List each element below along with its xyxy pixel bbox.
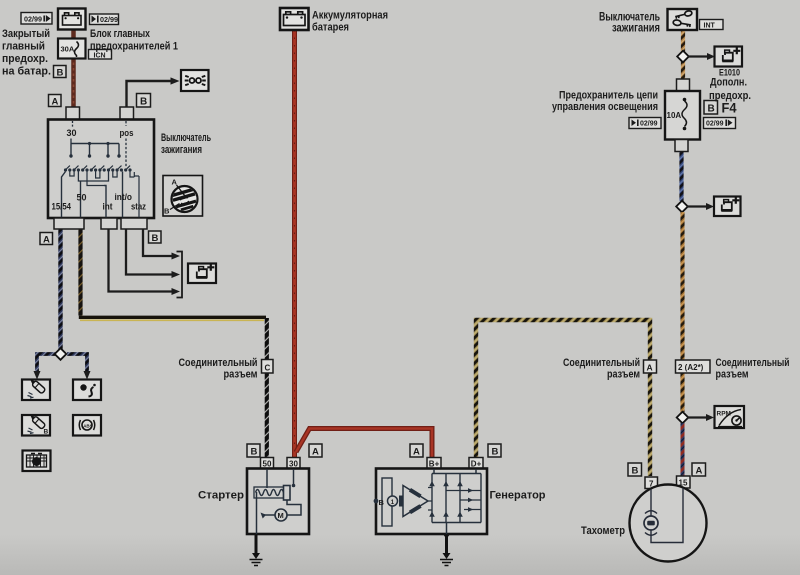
svg-text:15/54: 15/54 [52,202,72,212]
connector stub below ignition (int-o, staz) [121,218,147,229]
svg-text:10A: 10A [667,111,682,120]
caption F4 [722,101,737,116]
label B tach 7 [628,463,642,477]
caption ignition switch (left) [161,132,211,156]
svg-text:30: 30 [289,460,298,469]
connector C box [262,360,274,374]
bracket for battery-plus arrows [177,252,183,298]
svg-text:A: A [413,447,420,458]
svg-text:ICN: ICN [94,53,106,60]
fuel injector icon box 1 [22,377,50,400]
svg-text:30A: 30A [61,45,75,54]
svg-text:pos: pos [120,128,134,138]
battery-plus icon box (mid right) [714,197,741,217]
svg-text:Соединительный: Соединительный [716,357,790,369]
label B generator D+ [488,444,501,458]
starter box [247,469,309,535]
svg-text:A: A [43,235,50,246]
svg-text:B: B [632,466,639,477]
tachometer circle [630,485,707,562]
svg-text:F4: F4 [722,101,737,116]
connector stub above fuse F4 [677,79,690,91]
svg-text:Стартер: Стартер [198,490,244,502]
svg-text:Соединительный: Соединительный [179,357,258,369]
label B (headlight branch) [137,94,151,108]
wire fuse 30A to ignition switch connector (dark red) [71,57,76,108]
starter internals [254,469,301,534]
svg-text:предохр.: предохр. [2,53,48,65]
label B starter 50 [247,444,260,458]
svg-text:INT: INT [704,23,716,30]
svg-text:int/o: int/o [115,192,133,202]
label 02/99 arrow (top-left) [21,13,52,25]
svg-text:50: 50 [263,460,272,469]
wire fuse F4 to splice (blue/black) [679,152,683,201]
ignition switch box [48,120,154,219]
connector stub ignition top-left [66,107,80,120]
wire ignition int/o to battery-plus arrow (middle) [126,229,180,278]
svg-text:B: B [164,207,170,216]
svg-text:Выключатель: Выключатель [161,132,211,144]
svg-text:B: B [492,447,499,458]
ground symbol generator [440,553,453,566]
arrow splice to battery-plus E1010 [688,53,715,60]
caption connector 2 A2 (right of box) [716,357,790,381]
connector stub below ignition (int) [101,218,117,229]
svg-text:ABS: ABS [83,424,93,429]
battery-plus icon box (left) [188,264,216,284]
terminal B+ generator [427,458,441,469]
caption connector C [179,357,258,381]
wire ignition int to battery-plus arrow (bottom) [109,229,181,295]
ECU icon box 5 [23,451,51,472]
connector 2 (A2) box [676,360,711,373]
label A starter 30 [309,444,322,458]
svg-text:Блок главных: Блок главных [90,28,151,40]
svg-text:B: B [152,233,159,244]
svg-text:Генератор: Генератор [490,490,546,502]
ABS icon box 4 [73,415,101,436]
fuel injector icon box 3 [22,413,50,436]
svg-text:staz: staz [131,202,146,212]
wire red branch starter 30 to generator B plus [296,429,432,459]
splice node on 15/54 wire [55,348,67,360]
wire key switch to splice (orange/black) [681,30,685,80]
generator internals: stator delta [399,486,428,517]
key position diagram box [163,176,203,217]
terminal D+ generator [469,458,483,469]
svg-text:A: A [52,97,59,108]
svg-text:B: B [251,447,258,458]
svg-text:Тахометр: Тахометр [581,525,625,537]
svg-text:предохранителей 1: предохранителей 1 [90,41,178,53]
caption battery [312,10,388,34]
svg-text:02/99: 02/99 [100,15,118,24]
caption generator [490,490,546,502]
svg-text:B+: B+ [429,460,440,469]
svg-text:02/99: 02/99 [640,121,658,128]
svg-text:зажигания: зажигания [612,21,660,35]
terminal 7 tach [645,477,658,489]
terminal 15 tach [677,476,691,488]
svg-text:зажигания: зажигания [161,144,202,156]
svg-text:управления освещения: управления освещения [552,101,658,113]
svg-text:50: 50 [77,193,87,203]
connector stub below ignition (15/54+50) [54,218,84,229]
sensor icon box 2 [73,380,101,401]
svg-text:B: B [379,498,385,507]
ignition internals: bus bar and taps [69,142,120,158]
wire brown/black splice to connector 2(A2) and tach splice [680,212,684,412]
label 02/99 arrow (right of battery) [90,14,119,25]
battery box (main fuse block 1) [58,9,86,30]
connector stub below fuse F4 [675,140,688,152]
svg-text:30: 30 [67,128,77,138]
splice node top right [677,51,689,63]
svg-text:B: B [57,68,64,79]
svg-text:на батар.: на батар. [2,66,51,78]
svg-text:Закрытый: Закрытый [2,28,50,40]
svg-text:M: M [278,511,284,520]
svg-text:02/99: 02/99 [706,121,724,128]
label INT [700,20,724,30]
headlight icon box [181,70,209,91]
svg-text:Соединительный: Соединительный [563,357,640,369]
svg-text:B: B [44,429,49,436]
svg-text:главный: главный [2,41,45,53]
terminal 50 starter [261,458,274,469]
ignition internals: terminal labels [52,192,147,212]
caption lighting control fuse [552,90,658,114]
caption E1010 [719,68,740,78]
svg-text:разъем: разъем [716,369,749,381]
label B (fuse wire) [54,66,67,79]
wire 15/54 black/yellow L to connector C and starter 50 [79,229,267,459]
RPM icon box [715,406,745,428]
generator internals: regulator left [374,478,398,526]
wire battery to starter 30 (red) [292,30,297,457]
splice node tachometer [677,412,689,424]
svg-text:Дополн.: Дополн. [710,77,747,89]
label 02/99 right of fuse [704,118,736,129]
ignition internals: lower routing to terminals [62,172,140,219]
svg-text:A: A [312,447,319,458]
battery box (battery main) [280,8,309,30]
label A below ignition [40,233,53,246]
label 02/99 left of fuse [629,118,661,129]
label B fuse F4 [704,101,718,115]
generator box [376,469,487,535]
arrow splice to battery-plus box [687,203,714,210]
tachometer internals [644,488,683,543]
svg-text:Аккумуляторная: Аккумуляторная [312,10,388,22]
svg-text:int: int [103,202,113,212]
svg-text:C: C [265,364,271,373]
svg-text:разъем: разъем [607,369,640,381]
wire splice left branch to injector icon [34,354,59,380]
label A tach 15 [692,463,706,477]
label A (fuse wire lower) [49,95,62,108]
caption closed main fuse [2,28,51,78]
caption starter [198,490,244,502]
svg-text:2 (A2*): 2 (A2*) [678,363,704,372]
wire blue/red splice to tach 15 [681,423,685,477]
key switch icon box (top right) [668,9,698,30]
battery-plus icon box E1010 [715,47,743,67]
fuse box F4 [665,91,700,140]
arrow splice to RPM box [687,414,714,421]
caption tachometer [581,525,625,537]
terminal 30 starter [287,458,300,469]
ignition internals: pos feed [120,121,134,167]
label A generator B+ [410,444,423,458]
caption additional fuse [709,77,751,103]
svg-text:A: A [647,363,653,373]
caption ignition switch (top right) [599,10,660,35]
svg-text:02/99: 02/99 [24,15,42,24]
wire battery to fuse 30A (dark red) [71,28,76,40]
svg-text:разъем: разъем [224,369,258,381]
wire generator ground [444,531,450,557]
connector stub ignition top-right [120,107,134,120]
generator internals: rectifier bridge [428,469,481,534]
svg-text:B: B [708,104,715,115]
label B below ignition [149,231,162,244]
svg-text:Предохранитель цепи: Предохранитель цепи [559,90,658,102]
ignition internals: 30 feed [67,121,77,144]
svg-text:батарея: батарея [312,22,349,34]
wire starter ground [255,534,258,557]
splice node mid right [676,201,688,213]
caption main fuse block [90,28,178,53]
ignition internals: contact row [64,166,132,172]
fuse 30A [58,39,86,59]
label ICN [89,50,112,60]
wire 15/54 blue/black down to splice [58,229,62,350]
caption connector A (left of box) [563,357,640,381]
connector A box (generator wire) [644,360,657,373]
svg-text:D+: D+ [471,460,482,469]
wire generator D plus tan/black up and right [476,320,650,476]
svg-text:B: B [140,97,147,108]
svg-text:A: A [696,466,703,477]
ground symbol starter [250,553,263,566]
wire ignition B stub to headlight arrow [127,77,180,108]
wire ignition staz to battery-plus arrow (top) [143,229,180,260]
wire splice right branch to sensor icon [67,354,91,380]
